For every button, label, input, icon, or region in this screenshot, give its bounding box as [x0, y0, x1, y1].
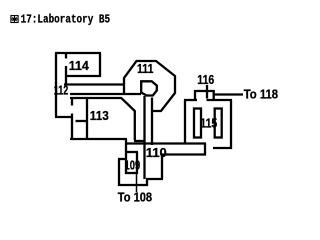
- svg-text:116: 116: [197, 72, 214, 87]
- svg-text:109: 109: [125, 157, 141, 172]
- svg-text:113: 113: [90, 108, 109, 123]
- svg-text:114: 114: [69, 58, 90, 73]
- svg-text:To 108: To 108: [118, 190, 152, 205]
- svg-text:To 118: To 118: [244, 86, 278, 101]
- svg-text:17:Laboratory B5: 17:Laboratory B5: [21, 12, 111, 26]
- svg-text:110: 110: [146, 145, 167, 160]
- svg-text:115: 115: [200, 116, 217, 131]
- svg-text:111: 111: [137, 61, 154, 76]
- svg-text:112: 112: [54, 82, 69, 97]
